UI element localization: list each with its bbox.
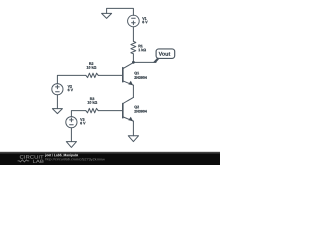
V3 minus sign bbox=[70, 124, 74, 126]
wire: V3 top to R3 row bbox=[71, 111, 85, 117]
svg-text:2N3904: 2N3904 bbox=[134, 76, 147, 80]
voltage source V1 bbox=[128, 15, 140, 27]
V2 plus sign bbox=[56, 85, 60, 89]
transistor Q1 base bar bbox=[122, 68, 124, 82]
Q1 emitter arrowhead bbox=[128, 81, 133, 85]
wire: top ground to V1 top bbox=[107, 8, 134, 15]
ground (below Q2) bbox=[128, 136, 138, 142]
V1 plus sign bbox=[132, 21, 136, 25]
V2 minus sign bbox=[56, 91, 60, 93]
wire: V1 bottom to R1 bbox=[132, 27, 134, 42]
Q2 emitter arrowhead bbox=[128, 117, 133, 121]
voltage source V3 bbox=[66, 117, 77, 128]
wire: Q2 emitter down to ground bbox=[132, 121, 134, 136]
wire: R1 bottom to node bbox=[132, 54, 134, 63]
resistor R2 bbox=[86, 73, 98, 77]
transistor Q1 emitter wire with arrow bbox=[123, 81, 133, 85]
V3 plus sign bbox=[70, 118, 74, 122]
ground (below V2) bbox=[52, 109, 62, 114]
svg-text:10 kΩ: 10 kΩ bbox=[87, 101, 97, 105]
resistor R1 bbox=[131, 41, 136, 53]
wire: V2 top to R2 row bbox=[57, 75, 86, 83]
transistor Q2 base bar bbox=[122, 104, 124, 118]
svg-text:2N3904: 2N3904 bbox=[134, 110, 147, 114]
transistor Q1 collector wire bbox=[123, 63, 133, 69]
ground (below V3) bbox=[66, 142, 76, 148]
wire: Q1 emitter down to Q2 collector bbox=[132, 85, 134, 97]
svg-text:Q1: Q1 bbox=[134, 71, 139, 75]
Vout flag tail bbox=[153, 58, 160, 62]
svg-text:Vout: Vout bbox=[159, 52, 171, 58]
V1 minus sign bbox=[132, 17, 136, 19]
wire: V2 bottom to ground bbox=[56, 95, 58, 109]
transistor Q2 collector wire bbox=[123, 97, 133, 103]
svg-text:Q2: Q2 bbox=[134, 105, 139, 109]
wire: node to Vout flag bbox=[133, 61, 156, 63]
wire: R2 to Q1 base bbox=[98, 74, 122, 76]
wire: V3 bottom to ground bbox=[70, 128, 72, 142]
voltage source V2 bbox=[52, 84, 63, 95]
wire: R3 to Q2 base bbox=[98, 110, 122, 112]
svg-text:10 kΩ: 10 kΩ bbox=[86, 66, 96, 70]
svg-text:http://circuitlab.com/c/5273y2: http://circuitlab.com/c/5273y2kmnw bbox=[45, 157, 105, 161]
node Vout junction dot bbox=[132, 61, 135, 64]
svg-text:6 V: 6 V bbox=[68, 88, 74, 92]
transistor Q2 emitter wire with arrow bbox=[123, 117, 133, 121]
svg-text:6 V: 6 V bbox=[80, 121, 86, 125]
svg-text:6 V: 6 V bbox=[142, 20, 148, 24]
ground (top left, V1 negative) bbox=[102, 13, 112, 18]
resistor R3 bbox=[86, 108, 98, 112]
svg-text:1 kΩ: 1 kΩ bbox=[138, 48, 146, 52]
CircuitLab logo resistor squiggle bbox=[18, 160, 30, 162]
Vout flag box bbox=[156, 49, 175, 59]
svg-text:LAB: LAB bbox=[32, 159, 44, 164]
